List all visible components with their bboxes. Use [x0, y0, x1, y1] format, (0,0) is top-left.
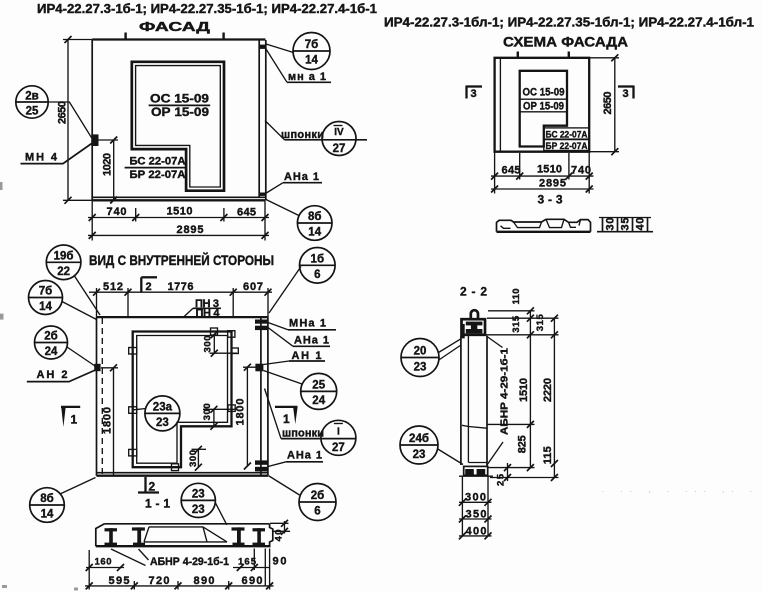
svg-text:2895: 2895 — [539, 178, 566, 190]
label мн а 1 — [266, 49, 331, 83]
svg-text:35: 35 — [620, 218, 632, 231]
svg-text:7б: 7б — [305, 39, 319, 51]
facade left edge anchor МН4 — [91, 134, 98, 146]
1-1 anchor beam 4 — [253, 528, 266, 546]
svg-text:27: 27 — [333, 143, 346, 155]
svg-text:8б: 8б — [40, 493, 54, 505]
svg-text:23: 23 — [414, 362, 427, 374]
label МНа 1 — [268, 318, 336, 330]
bottom dimension row 595 720 890 690 — [85, 549, 274, 590]
svg-text:1: 1 — [71, 413, 78, 427]
callout circle 19б/22 — [46, 245, 100, 315]
schema label box БР 22-07А — [544, 140, 589, 152]
schema top edge tick left — [517, 52, 519, 58]
svg-text:690: 690 — [242, 575, 263, 587]
svg-text:1800: 1800 — [235, 399, 247, 426]
svg-text:23: 23 — [192, 504, 205, 516]
section marker 1 right — [275, 407, 298, 426]
svg-text:14: 14 — [308, 227, 321, 239]
anchor mark left edge — [94, 364, 100, 371]
label АН 2 — [27, 369, 97, 382]
svg-text:350: 350 — [466, 508, 487, 520]
anchor mark right edge top — [255, 320, 268, 331]
svg-text:2650: 2650 — [602, 92, 614, 115]
label шпонки + circle IV/27 — [265, 121, 367, 156]
facade bottom extension lines — [92, 200, 265, 240]
callout circle 8б/14 inner view — [30, 478, 96, 523]
svg-text:315: 315 — [511, 315, 522, 333]
label АНа 1 upper right — [268, 328, 330, 347]
svg-text:3: 3 — [471, 88, 477, 100]
2-2 bottom base — [459, 466, 493, 476]
section marker 3 left — [467, 86, 483, 101]
svg-text:890: 890 — [194, 575, 215, 587]
2-2 dimension column 2 — [535, 313, 558, 481]
svg-text:30: 30 — [605, 218, 617, 231]
dimension 40 right of 1-1 — [270, 520, 290, 542]
callout circle 2б/6 — [268, 476, 336, 521]
section marker 1 left — [61, 407, 80, 427]
opening clip left 1 — [129, 348, 137, 355]
svg-text:1020: 1020 — [102, 153, 114, 176]
svg-text:300: 300 — [465, 492, 486, 504]
svg-text:24: 24 — [312, 395, 325, 407]
title СХЕМА ФАСАДА — [503, 34, 628, 50]
svg-text:ПН 4: ПН 4 — [196, 307, 221, 319]
svg-text:645: 645 — [237, 207, 256, 219]
svg-text:23: 23 — [156, 417, 169, 429]
svg-text:СХЕМА ФАСАДА: СХЕМА ФАСАДА — [503, 34, 628, 50]
header title right — [384, 16, 754, 30]
svg-text:110: 110 — [511, 289, 522, 305]
svg-text:2650: 2650 — [57, 101, 69, 124]
facade top edge tick left — [124, 33, 126, 40]
svg-text:3: 3 — [623, 88, 629, 100]
dimension 2650 schema right — [589, 54, 619, 155]
1-1 anchor beam 3 — [232, 527, 245, 545]
svg-text:АБНР 4-29-1б-1: АБНР 4-29-1б-1 — [499, 348, 511, 435]
svg-text:720: 720 — [149, 575, 170, 587]
label АНа 1 lower right — [268, 450, 323, 467]
svg-text:МНа 1: МНа 1 — [289, 318, 326, 330]
svg-text:7б: 7б — [39, 286, 53, 298]
svg-text:23: 23 — [413, 449, 426, 461]
1-1 anchor beam 1 — [105, 528, 118, 546]
facade corner anchor top-right — [259, 45, 266, 49]
svg-text:1-1: 1-1 — [145, 497, 170, 511]
svg-text:595: 595 — [109, 575, 130, 587]
inner view opening inner line — [137, 336, 228, 464]
inner view opening outline — [133, 332, 232, 468]
svg-text:825: 825 — [516, 435, 528, 453]
svg-text:740: 740 — [571, 165, 591, 177]
label АБНР 4-29-1б-1 — [111, 549, 229, 568]
callout circle 24б/23 — [400, 426, 463, 465]
svg-text:ОС 15-09: ОС 15-09 — [150, 92, 209, 106]
section marker 2 bottom + 1-1 — [138, 477, 170, 511]
callout circle 23/23 — [181, 483, 227, 525]
svg-text:1: 1 — [283, 412, 290, 426]
svg-text:1800: 1800 — [102, 407, 114, 434]
svg-text:шпонки: шпонки — [282, 428, 324, 440]
svg-text:БР 22-07А: БР 22-07А — [546, 141, 588, 152]
dimension 300 middle — [202, 403, 237, 430]
svg-text:40: 40 — [274, 530, 285, 542]
dimension 2895 schema — [491, 178, 594, 193]
label АБНР 4-29-1б-1 vertical — [487, 337, 511, 466]
svg-text:1776: 1776 — [168, 281, 194, 293]
svg-text:14: 14 — [39, 301, 52, 313]
svg-text:1510: 1510 — [537, 164, 562, 176]
scan noise marks — [0, 182, 752, 591]
schema opening outline — [520, 71, 567, 147]
facade opening inner line — [136, 66, 221, 187]
callout circle 7б/14 facade — [266, 33, 330, 70]
schema bottom extension lines — [495, 152, 590, 194]
opening clip left 2 — [129, 407, 137, 414]
facade top edge tick right — [222, 33, 224, 40]
schema label box БС 22-07А — [544, 128, 589, 140]
2-2 extension lines right — [486, 311, 559, 478]
svg-text:14: 14 — [305, 55, 318, 67]
label шпонки + circle I/27 inner view — [265, 389, 356, 456]
svg-text:2: 2 — [149, 480, 156, 494]
svg-text:14: 14 — [41, 509, 54, 521]
svg-text:2: 2 — [146, 281, 152, 293]
svg-text:1510: 1510 — [518, 378, 530, 402]
dimension 300 lower — [188, 446, 206, 471]
svg-text:2б: 2б — [44, 331, 58, 343]
2-2 dimension column 1 — [511, 289, 534, 472]
callout circle 1б/6 — [269, 247, 335, 313]
svg-text:2б: 2б — [311, 490, 325, 502]
anchor mark right edge middle — [255, 364, 263, 372]
label ОС 15-09 / ОР 15-09 — [149, 92, 211, 120]
svg-text:БР 22-07А: БР 22-07А — [130, 169, 186, 181]
svg-text:ФАСАД: ФАСАД — [139, 19, 211, 34]
section 3-3 mini dimensions 30 35 40 — [597, 217, 653, 233]
svg-text:300: 300 — [188, 450, 199, 467]
dimension row 645 1510 740 schema — [491, 164, 594, 180]
2-2 top anchor box — [461, 319, 485, 338]
opening clip right 1 — [228, 331, 235, 338]
2-2 lifting hook — [471, 310, 478, 318]
svg-text:90: 90 — [273, 556, 287, 568]
svg-text:300: 300 — [202, 403, 213, 420]
svg-text:24: 24 — [45, 346, 58, 358]
svg-text:ОС 15-09: ОС 15-09 — [523, 87, 565, 99]
svg-text:40: 40 — [635, 218, 647, 231]
callout circle 20/23 — [401, 339, 461, 377]
2-2 dimension 25 — [496, 463, 512, 486]
svg-text:25: 25 — [26, 106, 39, 118]
opening clip left 3 — [129, 449, 137, 456]
dimension 1020 facade — [99, 137, 119, 204]
svg-text:300: 300 — [203, 336, 214, 353]
header title left — [37, 2, 377, 16]
opening clip top — [211, 328, 218, 335]
facade opening outline — [132, 62, 224, 191]
svg-text:2-2: 2-2 — [460, 285, 487, 299]
section 1-1 profile — [96, 524, 273, 546]
svg-text:8б: 8б — [308, 211, 322, 223]
schema panel outline — [495, 58, 590, 152]
1-1 anchor beam 2 — [132, 527, 145, 545]
svg-text:1б: 1б — [311, 254, 325, 266]
facade panel outline — [92, 40, 266, 201]
svg-text:315: 315 — [535, 313, 546, 331]
callout circle 23а/23 — [134, 396, 180, 431]
svg-text:23: 23 — [192, 489, 205, 501]
dimension 300 upper — [203, 331, 238, 357]
opening clip right mid-upper — [231, 348, 238, 354]
dimension 2895 facade — [88, 224, 269, 239]
section marker 2 top — [141, 277, 157, 293]
callout circle 7б/14 inner view — [29, 281, 97, 320]
dimension 165 and 90 — [233, 549, 287, 587]
svg-text:24б: 24б — [409, 433, 429, 445]
2-2 bottom stacked dimensions 300 350 400 — [459, 476, 492, 539]
top dimension row 512 1776 607 — [89, 281, 272, 317]
svg-text:АНа 1: АНа 1 — [294, 335, 329, 347]
svg-text:20: 20 — [414, 346, 427, 358]
svg-text:1510: 1510 — [167, 206, 193, 218]
title ФАСАД — [139, 19, 211, 34]
svg-text:2895: 2895 — [177, 224, 204, 236]
svg-text:БС 22-07А: БС 22-07А — [130, 156, 186, 168]
svg-text:19б: 19б — [54, 251, 74, 263]
schema top edge tick right — [568, 52, 570, 58]
callout circle 2б/24 left — [35, 326, 97, 367]
callout circle 2в/25 — [16, 86, 92, 138]
svg-text:25: 25 — [496, 473, 507, 486]
svg-text:АБНР 4-29-1б-1: АБНР 4-29-1б-1 — [150, 556, 229, 568]
svg-text:ОР 15-09: ОР 15-09 — [151, 105, 209, 119]
opening clip bottom — [172, 464, 179, 471]
label АНа 1 facade — [266, 171, 323, 194]
svg-text:АН 2: АН 2 — [37, 369, 68, 381]
svg-text:645: 645 — [502, 165, 521, 177]
callout circle 8б/14 facade — [266, 200, 332, 241]
svg-text:27: 27 — [332, 442, 345, 454]
svg-text:2220: 2220 — [542, 378, 554, 402]
svg-text:22: 22 — [57, 266, 70, 278]
section 3-3 profile — [497, 219, 591, 232]
opening clip right 2 — [228, 405, 235, 412]
svg-text:АНа 1: АНа 1 — [284, 171, 319, 183]
dimension 2650 facade left — [57, 36, 93, 204]
svg-text:607: 607 — [243, 281, 263, 293]
svg-text:512: 512 — [103, 281, 123, 293]
inner view hidden edge dashed — [101, 318, 103, 475]
svg-text:2в: 2в — [25, 91, 38, 103]
svg-text:. .. , . ... ,. .: . .. , . ... ,. . — [602, 485, 752, 494]
svg-text:ИР4-22.27.3-1бл-1; ИР4-22.27.3: ИР4-22.27.3-1бл-1; ИР4-22.27.35-1бл-1; И… — [384, 16, 754, 30]
dimension 1800 left — [101, 364, 118, 474]
svg-text:ИР4-22.27.3-1б-1; ИР4-22.27.35: ИР4-22.27.3-1б-1; ИР4-22.27.35-1б-1; ИР4… — [37, 2, 377, 16]
svg-text:25: 25 — [312, 380, 325, 392]
svg-text:I: I — [337, 427, 340, 438]
label ПН 3 / ПН 4 — [184, 298, 222, 319]
svg-text:мн а 1: мн а 1 — [288, 71, 326, 83]
svg-text:23а: 23а — [153, 402, 173, 414]
svg-text:160: 160 — [95, 557, 112, 568]
dimension 1800 right — [235, 364, 256, 470]
svg-text:ОР 15-09: ОР 15-09 — [523, 101, 564, 113]
svg-text:6: 6 — [314, 506, 320, 518]
svg-text:БС 22-07А: БС 22-07А — [546, 129, 588, 140]
section marker 3 right — [618, 86, 634, 101]
label МН 4 — [21, 144, 92, 164]
svg-text:АНа 1: АНа 1 — [287, 450, 322, 462]
label АН 1 — [264, 350, 326, 365]
dimension row 740 1510 645 — [88, 206, 269, 222]
schema label ОС 15-09 / ОР 15-09 — [520, 87, 567, 113]
svg-text:ВИД С ВНУТРЕННЕЙ СТОРОНЫ: ВИД С ВНУТРЕННЕЙ СТОРОНЫ — [89, 253, 274, 268]
svg-text:400: 400 — [466, 526, 487, 538]
label БС 22-07А / БР 22-07А — [125, 156, 187, 181]
inner view panel outline — [97, 317, 269, 476]
svg-text:3-3: 3-3 — [538, 193, 563, 207]
callout circle 25/24 — [264, 371, 337, 410]
anchor mark right edge bottom — [255, 460, 268, 471]
svg-text:115: 115 — [542, 446, 554, 464]
facade corner anchor bottom-right — [259, 193, 266, 196]
2-2 body outline — [461, 336, 487, 467]
svg-text:740: 740 — [107, 206, 127, 218]
svg-text:IV: IV — [334, 127, 344, 138]
svg-text:6: 6 — [314, 269, 320, 281]
svg-text:МН 4: МН 4 — [25, 152, 58, 164]
dimension 160 — [86, 557, 124, 572]
